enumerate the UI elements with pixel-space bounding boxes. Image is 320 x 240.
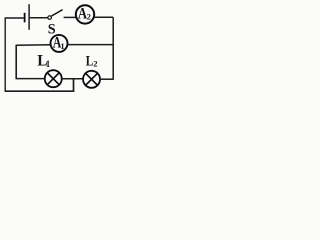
ammeter A2: circle: [76, 5, 94, 23]
svg-text:L: L: [86, 54, 94, 70]
wire: A2 to right vertical: [94, 16, 113, 18]
battery: short thick plate (negative): [24, 13, 26, 23]
lamp L1: subscript 1: [46, 59, 51, 69]
wire: between L1 and L2: [62, 78, 84, 80]
ammeter A1: letter A: [53, 35, 62, 52]
svg-text:2: 2: [93, 58, 97, 68]
ammeter A2: letter A: [78, 4, 87, 22]
svg-text:1: 1: [60, 41, 64, 51]
wire: bottom return from left vertical to mid junction: [5, 90, 75, 92]
wire: mid junction drop between lamps: [73, 79, 75, 91]
wire: inner-left vertical from A1 row down to lamp row: [15, 45, 17, 79]
svg-text:2: 2: [87, 12, 91, 21]
lamp L2: cross X: [86, 74, 97, 85]
wire: lamp row left segment to L1: [16, 78, 45, 80]
battery: long thin plate (positive): [28, 4, 30, 30]
wire: A1 right to right vertical: [68, 44, 113, 46]
wire: top left from left vertical to battery: [5, 17, 24, 19]
switch S: label: [48, 22, 56, 38]
ammeter A1: subscript 1: [60, 41, 64, 51]
lamp L2: subscript 2: [93, 58, 97, 68]
wire: left vertical from battery row down to bottom return: [4, 18, 6, 91]
lamp L1: circle: [45, 70, 62, 87]
wire: A1 row left segment from inner-left corner: [16, 44, 50, 47]
wire: switch right contact to ammeter A2: [64, 16, 76, 18]
switch S: pivot circle: [48, 16, 52, 20]
lamp L2: circle: [83, 71, 100, 88]
wire: right vertical (node joining A2, A1 right, L2 right): [112, 17, 114, 79]
wire: L2 right to right vertical: [100, 78, 114, 80]
lamp L1: label L: [37, 53, 47, 70]
ammeter A1: circle: [51, 35, 68, 52]
wire: battery to switch: [30, 17, 48, 19]
switch S: open blade: [52, 10, 63, 16]
ammeter A2: subscript 2: [87, 12, 91, 21]
lamp L2: label L: [86, 54, 94, 70]
svg-text:1: 1: [46, 59, 51, 69]
lamp L1: cross X: [48, 73, 59, 84]
